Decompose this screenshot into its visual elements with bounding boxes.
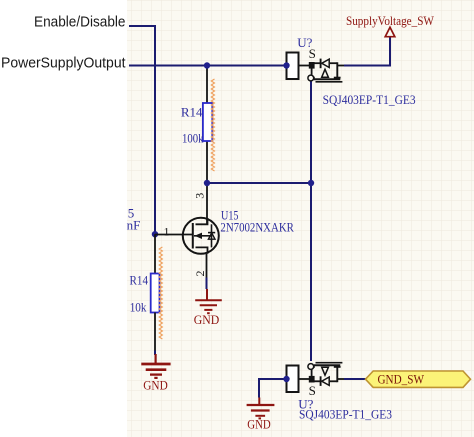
svg-text:GND_SW: GND_SW [378,372,425,387]
svg-text:SQJ403EP-T1_GE3: SQJ403EP-T1_GE3 [299,407,392,422]
junction node gate column [308,180,314,186]
svg-text:R14: R14 [130,272,149,287]
svg-text:SQJ403EP-T1_GE3: SQJ403EP-T1_GE3 [323,92,416,107]
wire PowerSupplyOutput horizontal [129,65,286,67]
wire bottom FET drain to port [344,378,366,380]
compile-error squiggle R14 100k [211,79,214,171]
svg-text:2: 2 [193,271,207,277]
resistor R14 10k [130,234,160,350]
svg-text:10k: 10k [130,299,147,314]
svg-text:100k: 100k [182,131,204,146]
junction node R14/U15 drain [204,180,210,186]
svg-text:R14: R14 [181,105,203,120]
svg-text:nF: nF [127,218,141,233]
junction endpoint at top FET input [283,62,289,68]
resistor R14 100k [181,66,212,225]
wire drain to SupplyVoltage_SW [344,38,390,66]
transistor U15 2N7002NXAKR [155,218,219,278]
arrow SupplyVoltage_SW [385,27,395,36]
sheet background [127,0,474,437]
transistor U? SQJ403EP top (P-FET) [287,53,345,82]
wire R14 bottom node to gate column [207,182,311,184]
transistor U? SQJ403EP bottom (mirrored) [287,363,345,392]
svg-text:GND: GND [247,417,271,432]
ground GND (U15 source) [195,289,222,313]
svg-text:3: 3 [193,193,207,199]
wire gate column vertical [310,81,312,361]
svg-text:SupplyVoltage_SW: SupplyVoltage_SW [346,14,435,28]
svg-text:GND: GND [194,312,220,327]
svg-text:S: S [309,46,316,61]
wire GND to bottom FET source [259,379,287,398]
ground GND (10k) [141,354,170,378]
compile-error squiggle R14 10k [159,247,162,339]
svg-text:GND: GND [143,378,168,393]
svg-text:PowerSupplyOutput: PowerSupplyOutput [1,55,126,72]
svg-text:2N7002NXAKR: 2N7002NXAKR [220,220,294,235]
junction node Enable wire / U15 gate [152,231,158,237]
wire U15 source to GND [206,278,208,290]
wire 10k to GND [154,351,156,356]
junction node PowerSupplyOutput/R14 [204,62,210,68]
svg-text:Enable/Disable: Enable/Disable [34,14,126,31]
port GND_SW [366,371,471,387]
svg-text:1: 1 [164,224,170,238]
wire Enable/Disable to U15 gate column [129,26,155,234]
ground GND (bottom FET) [247,398,275,419]
